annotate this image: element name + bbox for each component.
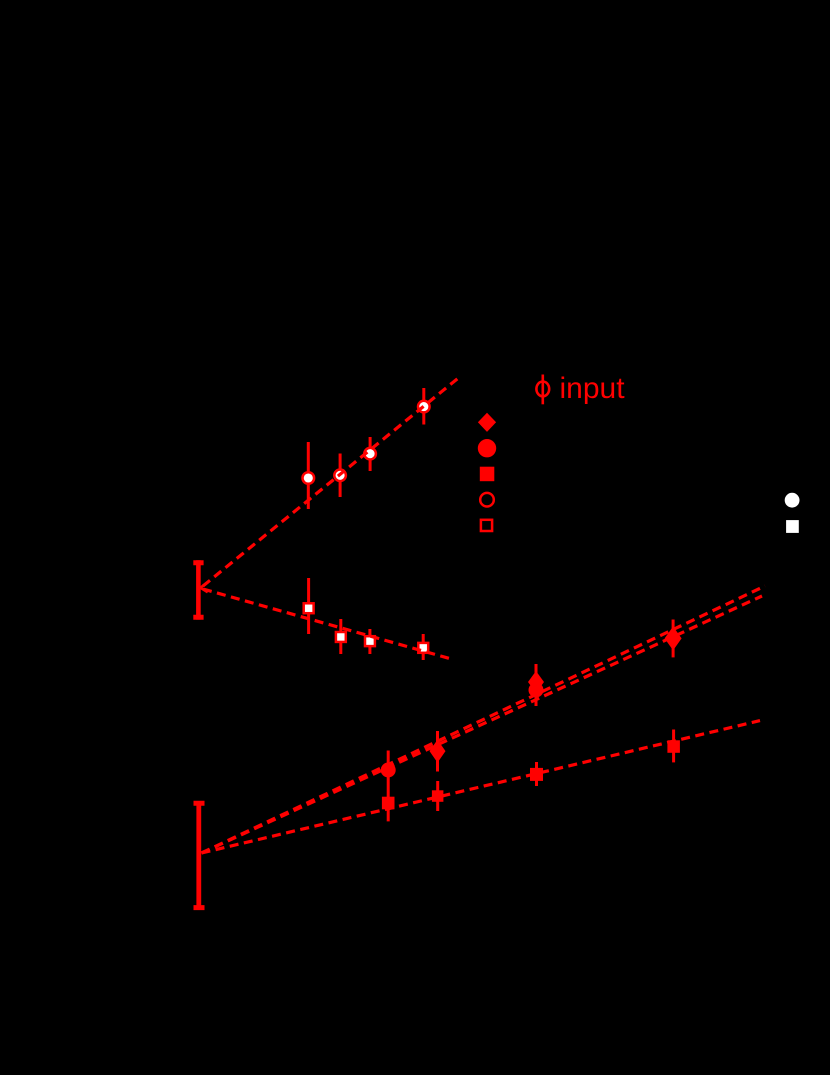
error bar square s1 (307, 578, 310, 634)
error bar b1 column (387, 751, 390, 822)
dashed fit line L2 steep lower (202, 596, 763, 853)
filled diamond b3 (528, 671, 544, 693)
filled square b3 (530, 768, 543, 781)
error bar circle c3 (369, 437, 372, 471)
open circle c3 (364, 448, 376, 460)
dashed fit line U1 rising (203, 378, 459, 586)
white legend circle (785, 493, 800, 508)
filled diamond b4 (665, 626, 682, 650)
open square s1 (304, 603, 314, 613)
legend filled square (480, 467, 495, 482)
filled square b4 (667, 740, 680, 753)
error bar circle c4 (422, 388, 425, 425)
error bar square s2 (339, 619, 342, 654)
error bar square s3 (368, 629, 371, 654)
error bar square s4 (422, 634, 425, 660)
open circle c2 (334, 470, 346, 482)
filled square b2 (432, 790, 444, 802)
error bar circle c1 (307, 442, 310, 509)
error bar diamond b2 (436, 731, 439, 772)
legend open circle (480, 493, 494, 507)
dashed fit line U2 declining (203, 589, 450, 659)
dashed fit line L3 shallow (202, 721, 761, 853)
filled square b1 (382, 797, 395, 810)
filled circle b3 (529, 683, 544, 698)
open square s4 (418, 643, 428, 653)
error bar square b2 (436, 781, 439, 811)
error bar square b3 (535, 762, 538, 786)
open circle c4 (418, 401, 430, 413)
error bar circle c2 (339, 454, 342, 498)
white legend square (786, 520, 799, 533)
legend filled diamond (478, 413, 496, 432)
open square s3 (365, 636, 375, 646)
legend phi symbol (536, 375, 549, 405)
dashed fit line L1 steep upper (202, 586, 766, 853)
error bar b3 column (535, 664, 538, 706)
open square s2 (336, 632, 346, 642)
error bar square b4 (672, 730, 675, 763)
lower error bracket (194, 801, 205, 910)
legend filled circle (478, 439, 496, 457)
arrow at convergence (200, 582, 207, 592)
upper error bracket (193, 560, 203, 619)
open circle c1 (303, 472, 315, 484)
filled circle b1 (381, 763, 396, 778)
filled diamond b2 (430, 740, 446, 763)
error bar diamond b4 (672, 620, 675, 658)
svg-text:input: input (560, 372, 626, 405)
legend open square (481, 520, 492, 531)
